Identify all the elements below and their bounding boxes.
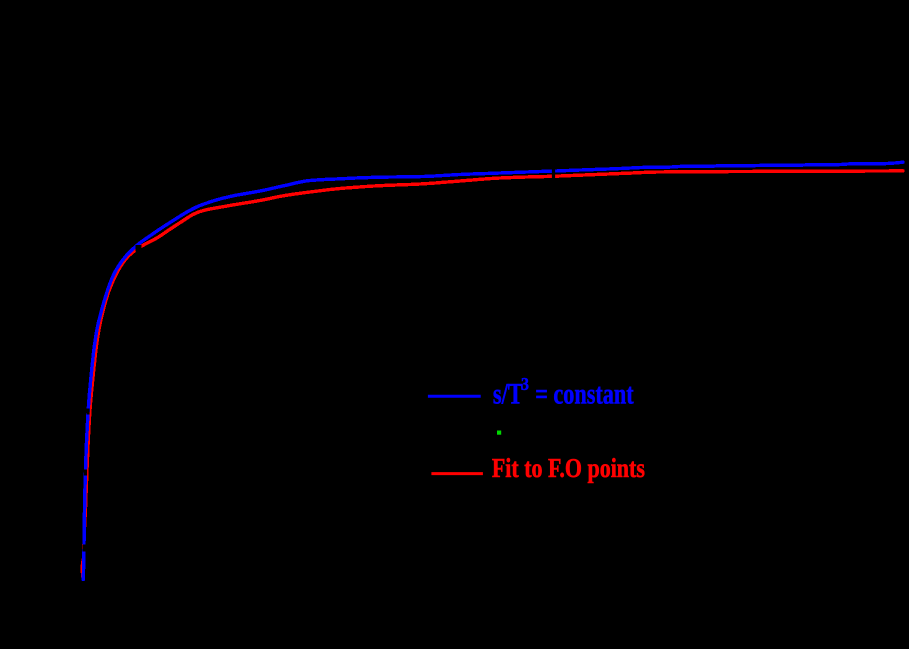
legend red line (431, 472, 483, 475)
legend blue line (428, 395, 481, 398)
svg-text:= constant: = constant (535, 377, 634, 410)
svg-text:Fit to F.O points: Fit to F.O points (492, 453, 645, 483)
blue curve: s/T^3 = constant (83, 162, 903, 579)
black F.O point tick marks over curves (84, 170, 554, 552)
svg-text:3: 3 (521, 374, 529, 394)
legend green marker (497, 431, 501, 435)
red curve: Fit to F.O points (82, 171, 903, 578)
svg-text:s/T: s/T (493, 377, 523, 410)
